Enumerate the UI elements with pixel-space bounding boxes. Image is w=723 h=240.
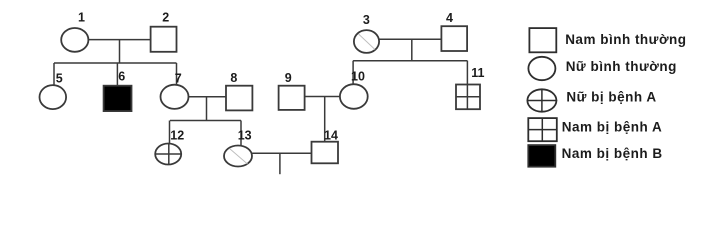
- individual 5 circle (female): [40, 85, 67, 109]
- legend symbol: normal female circle: [528, 57, 555, 80]
- individual 4 square (male): [441, 26, 467, 51]
- descent line from couple 9-10 to 14: [324, 97, 326, 142]
- cross vertical of 12: [168, 144, 170, 165]
- drop line to 11: [466, 61, 468, 85]
- legend symbol: affected A female circle with cross: [527, 89, 556, 111]
- drop line to 5: [53, 63, 55, 86]
- cross horizontal of 12: [155, 153, 183, 155]
- svg-text:2: 2: [162, 11, 169, 25]
- individual 3 circle (female): [354, 30, 379, 53]
- svg-text:10: 10: [351, 69, 365, 83]
- cross vertical of 11: [466, 85, 468, 110]
- svg-text:12: 12: [170, 128, 184, 142]
- individual 12 circle with cross (female affected A): [155, 144, 181, 165]
- marriage line 13-14: [252, 152, 312, 154]
- svg-text:Nam bình thường: Nam bình thường: [565, 32, 686, 47]
- individual 14 square (male): [312, 142, 339, 164]
- svg-text:6: 6: [118, 69, 125, 83]
- svg-text:Nam bị bệnh A: Nam bị bệnh A: [562, 119, 663, 134]
- descent line from couple 7-8: [206, 97, 208, 121]
- sibship line children of 3-4: [353, 60, 467, 62]
- svg-text:11: 11: [471, 66, 484, 80]
- sibship line children of 7-8: [170, 120, 241, 122]
- individual 8 square (male): [226, 86, 252, 111]
- svg-text:8: 8: [230, 71, 237, 85]
- svg-text:1: 1: [78, 11, 85, 25]
- faint diagonal artifact in circle 3: [359, 34, 376, 50]
- svg-text:Nữ bị bệnh A: Nữ bị bệnh A: [566, 89, 656, 104]
- drop line to 6: [116, 63, 118, 86]
- marriage line 3-4: [379, 38, 441, 40]
- svg-text:4: 4: [446, 11, 453, 25]
- legend symbol: affected A male square with cross: [528, 118, 557, 141]
- svg-text:9: 9: [285, 71, 292, 85]
- individual 7 circle (female): [161, 85, 189, 109]
- svg-text:14: 14: [324, 128, 338, 142]
- descent line from couple 1-2: [119, 40, 121, 63]
- marriage line 9-10: [305, 96, 340, 98]
- svg-text:3: 3: [363, 13, 370, 27]
- marriage line 7-8: [189, 96, 227, 98]
- faint diagonal artifact in circle 13: [230, 149, 248, 165]
- svg-text:Nữ bình thường: Nữ bình thường: [566, 59, 677, 74]
- drop line to 13: [240, 121, 242, 147]
- individual 11 square with cross (male affected A): [456, 85, 480, 110]
- individual 13 circle (female): [224, 146, 252, 167]
- svg-text:5: 5: [56, 72, 63, 86]
- svg-text:Nam bị bệnh B: Nam bị bệnh B: [562, 146, 663, 161]
- drop line to 12: [169, 121, 171, 145]
- individual 10 circle (female): [340, 84, 368, 109]
- drop line to 10: [352, 61, 354, 85]
- sibship line children of 1-2: [54, 62, 177, 64]
- dangling descent line from couple 13-14: [279, 153, 281, 174]
- individual 6 filled square (male affected B): [104, 86, 132, 111]
- drop line to 7: [176, 63, 178, 85]
- marriage line 1-2: [88, 39, 150, 41]
- svg-text:7: 7: [175, 72, 182, 86]
- descent line from couple 3-4: [411, 39, 413, 60]
- individual 9 square (male): [279, 86, 305, 110]
- cross horizontal of 11: [456, 96, 480, 98]
- legend symbol: normal male square: [529, 28, 556, 52]
- legend symbol: affected B male filled square: [528, 145, 555, 167]
- svg-text:13: 13: [238, 128, 252, 142]
- individual 1 circle (female): [61, 28, 88, 52]
- individual 2 square (male): [151, 27, 177, 52]
